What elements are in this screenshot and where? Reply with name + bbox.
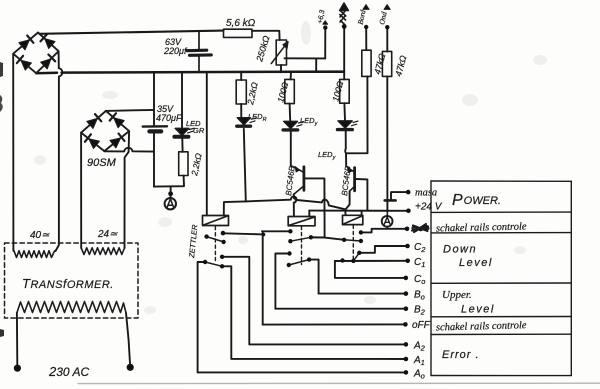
svg-text:Level: Level	[461, 304, 495, 316]
wire oFF run	[263, 323, 406, 325]
wire chain node left to relay K1 coil	[224, 201, 246, 215]
relay K1 coil box	[203, 216, 229, 226]
terminal arrow Bord	[363, 5, 369, 10]
table bottom border	[431, 375, 571, 377]
wire 47k R8 bottom long drop to +24V rail	[386, 76, 388, 210]
capacitor C1 220uF	[187, 50, 211, 55]
wire branch R5 stem from bus	[290, 72, 292, 79]
svg-text:schakel rails controle: schakel rails controle	[436, 221, 527, 234]
wire relay K2 row2 NO to B0 vertical	[309, 260, 319, 294]
wire Q2 base down to +24V rail	[356, 179, 367, 210]
wire R5 to LED Y1	[289, 104, 292, 121]
wire from R1 to potentiometer P1 top	[252, 31, 280, 40]
terminal dot C1	[405, 259, 410, 264]
wire transformer primary right lead	[126, 313, 130, 364]
relay K2 contact row2 lever	[289, 260, 309, 265]
capacitor C1 stem	[198, 32, 200, 72]
wire relay K2 row1 to relay K3 row1	[311, 237, 344, 240]
resistor R7 47k vertical	[362, 50, 371, 76]
ground symbol masa	[385, 199, 396, 202]
terminal dot B2	[404, 306, 409, 311]
transformer 40V secondary winding	[14, 251, 55, 258]
wire B1 AC left lead down to transformer 40V winding	[12, 54, 14, 251]
svg-text:+24 V: +24 V	[415, 202, 443, 213]
relay K3 contact row2 lever	[353, 253, 359, 261]
resistor R6 100R vertical branch3	[340, 79, 350, 103]
wire wiper rail to +6,3 terminal	[285, 57, 326, 59]
svg-text:5,6 kΩ: 5,6 kΩ	[226, 18, 256, 29]
wire branch3 terminal stem down	[343, 29, 345, 80]
wire junction down to Q2 collector	[345, 153, 347, 166]
relay K1 actuator dashed	[214, 227, 216, 261]
wire transformer primary left lead	[16, 313, 18, 365]
svg-text:Level: Level	[459, 257, 493, 269]
wire C1 run	[335, 260, 408, 262]
wire 470uF branch stem from bus	[153, 72, 155, 126]
terminal dot C0	[404, 276, 409, 281]
LED GR light arrows	[188, 128, 195, 133]
LED Y1 light arrows	[297, 122, 304, 127]
svg-text:40≃: 40≃	[30, 230, 50, 241]
resistor R4 2.2k vertical branch1	[236, 80, 246, 104]
wire Q1 emitter down to relay K2 with hop	[294, 194, 296, 216]
diode D4 of B1	[41, 59, 51, 69]
wire relay K3 right stub to rail	[361, 211, 363, 216]
svg-text:90SM: 90SM	[87, 157, 117, 169]
LED Y2 light arrows	[352, 121, 359, 126]
svg-text:POWER.: POWER.	[452, 192, 501, 209]
diode D1 of B1	[19, 40, 29, 50]
relay K1 contact row1 lever	[207, 237, 224, 242]
wire B2 AC right lead down to transformer 24V winding	[125, 131, 130, 248]
relay K2 contact row1 lever	[290, 237, 311, 241]
svg-text:masa: masa	[415, 188, 437, 199]
table divider below schakel row 2	[431, 333, 571, 335]
potentiometer P1 250k	[276, 40, 286, 65]
wire relay K2 row1 common to oFF vertical	[262, 230, 290, 232]
terminal arrow Ond	[384, 5, 390, 10]
svg-text:oFF: oFF	[412, 320, 431, 331]
wire relay K1 coil feed from bus	[206, 72, 208, 215]
wire LED R down to relay chain node	[244, 129, 246, 202]
wire relay K2 row2 NC to B2 vertical	[275, 254, 289, 309]
relay K3 coil box	[343, 215, 363, 224]
scan noise blobs	[34, 21, 547, 314]
terminal arrow +6,3	[323, 21, 328, 24]
wire chain node right with hops to relay K3 coil	[246, 196, 346, 215]
wire crossed terminal to relay K3 contact	[361, 229, 407, 233]
diode D8 of B2	[110, 138, 120, 148]
relay K3 contact row1 lever	[344, 240, 361, 241]
table divider below Down Level	[431, 282, 571, 284]
svg-text:470μF: 470μF	[156, 113, 182, 123]
svg-text:230 AC: 230 AC	[48, 364, 89, 379]
scan smudge left edge 2	[0, 95, 3, 112]
wire A2 vertical and run	[222, 257, 406, 345]
wire B0 run	[319, 293, 406, 295]
wire LED Y2 down to junction	[344, 131, 347, 154]
transformer dashed box	[5, 243, 139, 318]
terminal dot B0	[404, 291, 409, 296]
LED R light arrows	[250, 118, 257, 123]
terminal dot +24V	[406, 209, 411, 214]
relay K3 actuator dashed	[352, 225, 354, 260]
diode D3 of B1	[21, 60, 31, 70]
wire LED GR branch stem from bus	[181, 72, 183, 127]
svg-text:Down: Down	[443, 244, 477, 256]
terminal dot C2	[405, 244, 410, 249]
bridge rectifier B2 90SM	[81, 111, 129, 151]
wire R6 to LED Y2	[343, 103, 346, 120]
relay K2 actuator dashed	[301, 226, 303, 264]
svg-text:24≃: 24≃	[97, 229, 118, 240]
svg-text:220μf: 220μf	[163, 46, 188, 56]
wire B2 plus output to 470uF node	[106, 110, 154, 111]
terminal dot A1	[404, 357, 409, 362]
transformer 24V secondary winding	[81, 248, 124, 255]
wire main horizontal bus (B1 minus rail)	[36, 72, 344, 74]
scan shadow line bottom	[78, 382, 600, 384]
wire B2 run	[275, 308, 406, 310]
svg-text:Error .: Error .	[442, 349, 480, 361]
wire LED GR to resistor R3	[181, 139, 183, 152]
wire R4 to LED R	[240, 104, 242, 117]
relay K1 contact row2 lever	[205, 262, 222, 266]
wire A0 vertical and run	[198, 262, 406, 372]
terminal arrow masa top (bold)	[340, 3, 349, 25]
wire Q2 emitter down to relay K3	[346, 191, 350, 209]
wire junction to 47k R7 drop	[346, 77, 368, 154]
table right border	[570, 181, 572, 375]
LED Y2 symbol	[338, 121, 352, 128]
wire junction down to indicator lamp	[170, 186, 172, 198]
resistor R1 5.6k horizontal	[224, 29, 253, 37]
svg-text:Upper.: Upper.	[442, 289, 472, 301]
LED R symbol	[237, 118, 250, 125]
terminal dot oFF	[403, 322, 408, 327]
wire relay K2 right stub to rail	[308, 211, 310, 217]
table divider below POWER	[431, 211, 571, 213]
terminal dot A0	[404, 370, 409, 375]
table left border	[430, 181, 432, 376]
bridge rectifier B1	[13, 33, 58, 74]
transformer 230V primary winding	[17, 302, 126, 313]
junction dot above indicator lamp	[168, 191, 173, 196]
wire A1 vertical and run	[222, 266, 406, 359]
diode D5 of B2	[87, 119, 97, 129]
resistor R8 47k vertical	[382, 51, 391, 76]
wire LED Y1 down to transistor Q1 collector	[290, 131, 292, 165]
wire relay K1 NC to oFF vertical	[224, 233, 263, 234]
relay K2 coil box	[288, 217, 315, 226]
terminal dot crossed-out	[405, 227, 410, 232]
diode D6 of B2	[114, 118, 124, 128]
scan smudge left edge 3	[0, 329, 4, 337]
wire capacitor C2 bottom joins resistor branch	[154, 176, 184, 187]
transistor Q2 BC546B	[346, 166, 355, 191]
wire masa terminal lead	[391, 192, 408, 200]
wire 47k R8 top stem	[386, 29, 388, 51]
wire B1 AC right lead down with hop over bus	[56, 52, 63, 251]
wire B2 AC left lead down to transformer 24V winding	[80, 133, 82, 248]
svg-text:TRANSfORMER.: TRANSfORMER.	[22, 276, 114, 291]
wire C2 branch	[359, 246, 407, 253]
diode D2 of B1	[45, 39, 55, 49]
transistor Q1 BC546B	[291, 166, 304, 195]
svg-text:GR: GR	[193, 126, 205, 135]
wire B2 minus output right with hop over AC lead	[104, 148, 153, 152]
terminal dot 230AC left	[14, 365, 21, 372]
scan smudge left edge 1	[0, 62, 3, 77]
wire potentiometer bottom to bus	[280, 65, 282, 72]
wire branch R4 stem from bus	[240, 72, 242, 80]
resistor R3 2.2k vertical (LED GR)	[179, 152, 188, 176]
wire +6,3 terminal stem	[324, 30, 326, 59]
capacitor C2 470uF plates	[143, 125, 167, 128]
wire 47k R7 top stem	[365, 29, 367, 50]
scribbled-out label	[412, 224, 429, 232]
LED GR symbol	[175, 128, 189, 135]
terminal dot A2	[404, 342, 409, 347]
indicator lamp A1 circle-A bottom left	[165, 198, 176, 209]
table top border	[431, 180, 571, 182]
LED Y1 symbol	[284, 121, 298, 128]
terminal dot masa	[406, 190, 411, 195]
diode D7 of B2	[89, 139, 99, 149]
potentiometer P1 wiper arrow	[271, 42, 288, 64]
table divider below schakel row	[431, 232, 571, 234]
table divider below Upper Level	[431, 316, 571, 318]
terminal dot 230AC right	[127, 364, 134, 371]
wire C0 branch	[335, 261, 406, 278]
wire wiper rail tap down to bus	[315, 58, 317, 72]
wire 470uF bottom stem	[153, 133, 155, 187]
resistor R5 100R vertical branch2	[285, 79, 295, 103]
wire oFF vertical	[262, 231, 264, 324]
wire Q1 base to relay K2 contact	[305, 178, 324, 237]
ammeter A2 circle on +24V rail	[382, 211, 393, 229]
wire +24V rail	[309, 210, 408, 212]
wire top rail from bridge B1 plus output to resistor R1	[40, 31, 224, 34]
